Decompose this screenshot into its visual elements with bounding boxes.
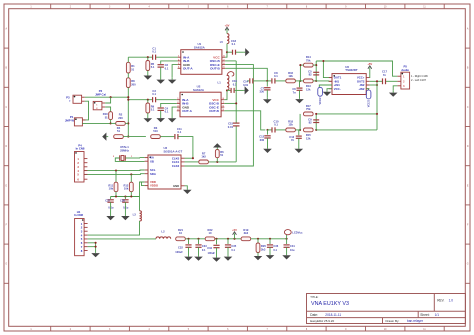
wire CLK2 to U1 OSC-E <box>185 65 254 166</box>
resistor R14 <box>304 63 314 67</box>
wire L2 to R21 <box>170 238 172 240</box>
wire U1 IN-B to C2 <box>161 61 178 64</box>
svg-text:LCDVcc: LCDVcc <box>292 230 303 234</box>
net flag VCC/2 left <box>318 87 323 96</box>
wire P3 pin2 down to P1 pin1 <box>82 101 88 120</box>
wire H1 pin5 power rail <box>88 238 156 240</box>
wire main left vertical bus <box>127 57 129 62</box>
svg-text:0.1: 0.1 <box>202 248 206 252</box>
wire VDD VDDO to L3 <box>140 182 145 211</box>
svg-text:C37: C37 <box>105 199 110 203</box>
connector P3 <box>73 95 82 103</box>
wire OUT1 to top line <box>323 61 332 78</box>
svg-text:0.1: 0.1 <box>232 42 236 46</box>
feedback vertical right ch2 <box>315 114 317 130</box>
capacitor C6 7n to ground <box>299 81 302 87</box>
svg-text:12k: 12k <box>306 87 311 91</box>
svg-text:C35: C35 <box>231 244 236 248</box>
capacitor C35 <box>227 238 229 240</box>
svg-text:Sheet:: Sheet: <box>420 313 429 317</box>
capacitor C34 100uF <box>215 238 217 240</box>
feedback vertical left ch2 <box>299 114 301 130</box>
svg-text:Date:: Date: <box>310 313 318 317</box>
resistor R5 <box>147 57 149 60</box>
svg-text:2018-11-11: 2018-11-11 <box>325 313 341 317</box>
svg-text:1.0: 1.0 <box>449 299 454 303</box>
svg-text:OUT-B: OUT-B <box>210 67 220 71</box>
wire +IN1 to bias flag <box>319 85 332 88</box>
svg-text:VCC-: VCC- <box>334 87 341 91</box>
svg-text:0.01: 0.01 <box>228 125 234 129</box>
svg-text:XB: XB <box>150 159 154 163</box>
inductor L1 with lead <box>227 72 234 76</box>
svg-text:0.01: 0.01 <box>243 83 249 87</box>
svg-text:10: 10 <box>179 231 182 235</box>
resistor R12 <box>130 174 132 182</box>
junction row2 input <box>266 129 268 131</box>
svg-text:200: 200 <box>131 82 136 86</box>
svg-text:VCC/2: VCC/2 <box>319 97 322 105</box>
svg-text:0.1: 0.1 <box>231 248 235 252</box>
svg-text:VCC/2: VCC/2 <box>368 100 371 108</box>
wire P4 pin4 to SCL <box>84 169 145 172</box>
capacitor C32 100uF <box>187 238 189 240</box>
junction R15 right <box>315 129 317 131</box>
svg-text:0.1u: 0.1u <box>108 205 114 209</box>
svg-text:51: 51 <box>105 115 108 119</box>
svg-text:2 - Left C107: 2 - Left C107 <box>411 78 427 82</box>
net flag VCC/2 right <box>366 90 371 99</box>
svg-text:SA612A: SA612A <box>194 45 206 49</box>
svg-text:Si5351A-A-GT: Si5351A-A-GT <box>164 149 183 153</box>
wire row2 right extension <box>316 129 377 131</box>
capacitor C2 <box>158 64 164 66</box>
ground under R9 <box>147 113 149 118</box>
resistor R3 <box>151 135 161 139</box>
svg-text:5.1: 5.1 <box>151 65 155 69</box>
net flag LCDVcc <box>286 235 288 239</box>
resistor R8 <box>126 78 130 88</box>
wire U2 OSC-B stub <box>224 102 236 104</box>
svg-text:0.1: 0.1 <box>165 110 169 114</box>
capacitor C4 <box>158 107 164 109</box>
junction R16/R13 <box>295 80 300 82</box>
svg-text:G: G <box>5 264 7 266</box>
svg-text:10u: 10u <box>290 248 295 252</box>
power +5V flag above L5 <box>226 29 228 34</box>
ground right of C18 <box>236 51 244 53</box>
ground arrow above R6 <box>216 148 218 150</box>
junction R11 top <box>115 170 117 172</box>
wire L5 to U1 VCC <box>225 44 227 58</box>
resistor R7 on CLK1 row <box>185 161 199 163</box>
wire -IN2 stub to feedback vertical <box>366 84 377 86</box>
ground for U1 GND <box>171 78 173 80</box>
svg-text:3k3: 3k3 <box>244 231 249 235</box>
svg-text:L2: L2 <box>161 229 165 233</box>
svg-text:CLK2: CLK2 <box>172 164 180 168</box>
wire crystal to XB loop <box>115 158 144 161</box>
resistor R21 <box>176 237 186 241</box>
svg-text:C36: C36 <box>273 244 278 248</box>
svg-text:200: 200 <box>118 116 123 120</box>
junction R2 right at bus <box>127 122 129 124</box>
resistor R16 <box>286 79 296 83</box>
svg-text:1/1: 1/1 <box>435 313 440 317</box>
junction C1/R5 <box>147 56 149 58</box>
svg-text:In CN8: In CN8 <box>74 213 83 217</box>
ground right of C16 <box>235 89 244 91</box>
capacitor C3 <box>152 97 154 102</box>
svg-text:1 - Right C106: 1 - Right C106 <box>411 74 428 78</box>
feedback vertical left ch1 <box>299 65 301 81</box>
wire U2 IN-B to C4 <box>161 103 177 107</box>
wire U1 OSC-B stub <box>225 60 236 62</box>
wire U1 GND pin to ground <box>172 65 178 78</box>
svg-text:JMP Cal: JMP Cal <box>95 92 106 96</box>
resistor R6 <box>216 158 218 162</box>
wire P4 pin5 to SDA <box>84 173 145 176</box>
resistor R20 <box>257 238 259 240</box>
wire rail R21 to R22 <box>185 238 205 240</box>
capacitor C36 <box>269 238 271 240</box>
wire pullup bottoms to VDD rail <box>115 192 117 197</box>
junction R13 right <box>315 80 317 82</box>
power +5V flag on rail <box>233 238 235 240</box>
title block <box>307 294 466 324</box>
capacitor C11 <box>174 134 176 139</box>
svg-text:L5: L5 <box>220 40 224 44</box>
svg-text:P3: P3 <box>66 95 70 99</box>
wire U2 OUT-B down to row2 <box>224 111 265 130</box>
svg-text:7n: 7n <box>291 138 294 142</box>
svg-text:10k: 10k <box>109 187 114 191</box>
capacitor C16 <box>227 89 231 91</box>
wire +IN2 to bias flag <box>366 89 368 90</box>
svg-text:C32: C32 <box>178 245 183 249</box>
svg-text:ban.relayer: ban.relayer <box>407 319 424 323</box>
svg-text:12k: 12k <box>288 123 293 127</box>
junction R18/R15 <box>295 129 300 131</box>
capacitor C18 <box>227 51 232 53</box>
wire P3 pin1 to input bus <box>85 96 129 98</box>
svg-text:1k5: 1k5 <box>201 155 206 159</box>
svg-text:C34: C34 <box>207 246 212 250</box>
resistor R22 <box>205 237 215 241</box>
svg-text:C31: C31 <box>290 244 295 248</box>
svg-text:+5V: +5V <box>225 24 230 28</box>
resistor R4 <box>114 135 124 139</box>
wire rail R22 to R19 <box>215 238 241 240</box>
inductor L3 <box>140 211 142 221</box>
capacitor C13 7n to ground <box>299 130 300 135</box>
svg-text:GND: GND <box>173 184 179 188</box>
capacitor C37 <box>110 197 112 200</box>
svg-text:+IN2: +IN2 <box>358 87 364 91</box>
svg-text:Audio: Audio <box>401 68 409 72</box>
svg-text:TITLE:: TITLE: <box>310 295 318 299</box>
ground under R5 <box>147 71 149 76</box>
wire C3 row to U2 IN-A <box>128 99 152 101</box>
resistor R11 <box>115 171 117 183</box>
svg-text:330: 330 <box>260 138 265 142</box>
svg-text:51: 51 <box>117 129 120 133</box>
ground under C2 <box>160 67 162 79</box>
ground for U2 GND <box>171 117 173 119</box>
svg-text:OUT-B: OUT-B <box>209 109 219 113</box>
ground for U3 GND pin <box>181 185 185 187</box>
svg-text:10: 10 <box>209 231 212 235</box>
capacitor C12 330 to ground <box>267 130 269 135</box>
svg-text:SA612A: SA612A <box>193 88 205 92</box>
wire H1 pins 6 7 to ground <box>88 243 96 253</box>
svg-text:12k: 12k <box>288 74 293 78</box>
wire crystal to XA <box>125 157 140 159</box>
inductor L2 <box>156 237 171 239</box>
wire CLK1 vertical to mixers OSC-B via C15 <box>235 126 237 162</box>
resistor R1 <box>126 62 130 73</box>
ground under C7 <box>266 98 268 100</box>
svg-text:L3: L3 <box>133 213 137 217</box>
wire U1 OUT-B down to row1 <box>225 68 267 81</box>
svg-text:3k3: 3k3 <box>261 247 266 251</box>
svg-text:+5V: +5V <box>232 228 237 232</box>
svg-text:0.1: 0.1 <box>165 66 169 70</box>
svg-text:TS922DT: TS922DT <box>345 68 358 72</box>
resistor R19 <box>241 237 251 241</box>
svg-text:OUT-A: OUT-A <box>182 109 192 113</box>
svg-text:VDDO: VDDO <box>150 184 159 188</box>
svg-text:0.1u: 0.1u <box>123 205 129 209</box>
wire CLK0 to C11 net <box>185 157 193 159</box>
wire VCC- to ground <box>327 89 332 91</box>
op-amp IC U6 TS922DT <box>332 74 366 95</box>
svg-text:EasyEDA V5.9.20: EasyEDA V5.9.20 <box>310 319 334 323</box>
mixer IC U1 SA612A <box>178 42 226 74</box>
svg-text:SDA: SDA <box>150 172 156 176</box>
ground under C38 <box>124 202 126 214</box>
svg-text:82: 82 <box>309 73 312 77</box>
svg-text:REV.: REV. <box>437 299 444 303</box>
wire OUT1 feedback top line to P5 pin1 <box>316 61 397 76</box>
svg-text:0.1: 0.1 <box>152 92 156 96</box>
ground under C12 <box>267 147 269 149</box>
ground under C37 <box>110 202 112 214</box>
svg-text:51: 51 <box>131 67 134 71</box>
capacitor C14 on row1 <box>247 80 249 82</box>
resistor R10 <box>109 112 113 120</box>
capacitor C7 330 to ground <box>266 81 268 87</box>
svg-text:0.1: 0.1 <box>178 130 182 134</box>
svg-text:0.1: 0.1 <box>233 82 237 86</box>
svg-text:330: 330 <box>260 90 265 94</box>
junction R12 top <box>130 173 132 175</box>
wire row2 to U4 -IN2 feedback <box>316 113 377 115</box>
IC U3 Si5351A-A-GT <box>148 155 181 189</box>
svg-text:10k: 10k <box>124 187 129 191</box>
resistor R15 <box>304 128 314 132</box>
svg-text:510: 510 <box>153 129 158 133</box>
capacitor C38 <box>124 197 126 200</box>
resistor R9 <box>147 100 149 103</box>
svg-text:0.1: 0.1 <box>274 123 278 127</box>
resistor R18 <box>286 128 296 132</box>
wire P2 pin1 up to cal net <box>105 97 111 103</box>
resistor R2 <box>116 122 126 126</box>
wire R3 to C11 <box>160 136 174 138</box>
svg-text:VNA EU1KY V3: VNA EU1KY V3 <box>311 301 349 307</box>
svg-text:G: G <box>467 264 469 266</box>
capacitor C17 <box>382 78 384 84</box>
junction C3/R9 <box>147 99 149 101</box>
svg-text:OUT-A: OUT-A <box>183 67 193 71</box>
svg-text:0.1: 0.1 <box>274 74 278 78</box>
svg-text:In CN8: In CN8 <box>76 147 85 151</box>
wire R4 row to R3 <box>123 136 146 138</box>
capacitor C33 <box>197 238 199 240</box>
wire row1 to U4 -IN1 <box>316 80 332 82</box>
feedback vertical right ch1 <box>315 61 317 81</box>
wire R19 to flag <box>251 238 287 240</box>
wire P5 pin3 to ground <box>393 86 397 91</box>
svg-text:75k: 75k <box>306 58 311 62</box>
svg-text:82: 82 <box>309 121 312 125</box>
svg-text:51: 51 <box>220 153 223 157</box>
junction R6 bottom <box>208 161 236 163</box>
svg-text:L1: L1 <box>218 81 222 85</box>
svg-text:0.1: 0.1 <box>273 248 277 252</box>
resistor R13 <box>300 80 303 82</box>
svg-text:100uF: 100uF <box>175 250 183 254</box>
resistor R17 <box>304 112 314 116</box>
junction R10 bottom <box>110 122 112 124</box>
svg-text:Drawn By:: Drawn By: <box>386 319 400 323</box>
capacitor C5 on feedback <box>313 71 319 73</box>
capacitor C9 on feedback <box>313 119 319 121</box>
svg-text:7n: 7n <box>293 90 296 94</box>
wire L1 to U2 VCC <box>224 90 227 99</box>
capacitor C15 in series <box>233 122 240 124</box>
svg-text:0.1: 0.1 <box>152 49 156 53</box>
wire P1 pin2 row to bus <box>82 122 110 124</box>
mixer IC U2 SA612A <box>177 85 225 117</box>
wire C11 down to CLK0 row <box>178 137 193 159</box>
svg-text:5.1: 5.1 <box>151 108 155 112</box>
wire L3 to power rail <box>88 221 140 235</box>
power +5V for U4 <box>368 72 370 78</box>
svg-text:75k: 75k <box>306 107 311 111</box>
svg-text:100uF: 100uF <box>208 251 216 255</box>
svg-text:+5V: +5V <box>367 62 372 66</box>
inductor L5 <box>227 34 229 44</box>
capacitor C10 <box>268 129 272 131</box>
wire feedback vertical right of U4 <box>376 81 378 130</box>
svg-text:7n: 7n <box>383 73 386 77</box>
svg-text:12k: 12k <box>306 136 311 140</box>
capacitor C8 <box>267 80 271 82</box>
ground arrow left of R4 <box>106 136 108 138</box>
capacitor C1 <box>152 55 154 60</box>
wire U2 GND pin to ground <box>172 107 177 116</box>
ground for H1 <box>95 252 97 255</box>
wire P2 pin2 to R10 <box>105 107 111 112</box>
ground under C4 <box>160 111 162 119</box>
wire C1 row to U1 IN-A <box>128 56 152 58</box>
svg-text:25MHz: 25MHz <box>120 149 129 153</box>
junction row1 input <box>266 80 268 82</box>
junction R4 at bus <box>127 136 129 138</box>
svg-text:C38: C38 <box>120 199 125 203</box>
wire OUT2 to audio jack <box>369 80 382 82</box>
capacitor C31 <box>286 238 288 240</box>
